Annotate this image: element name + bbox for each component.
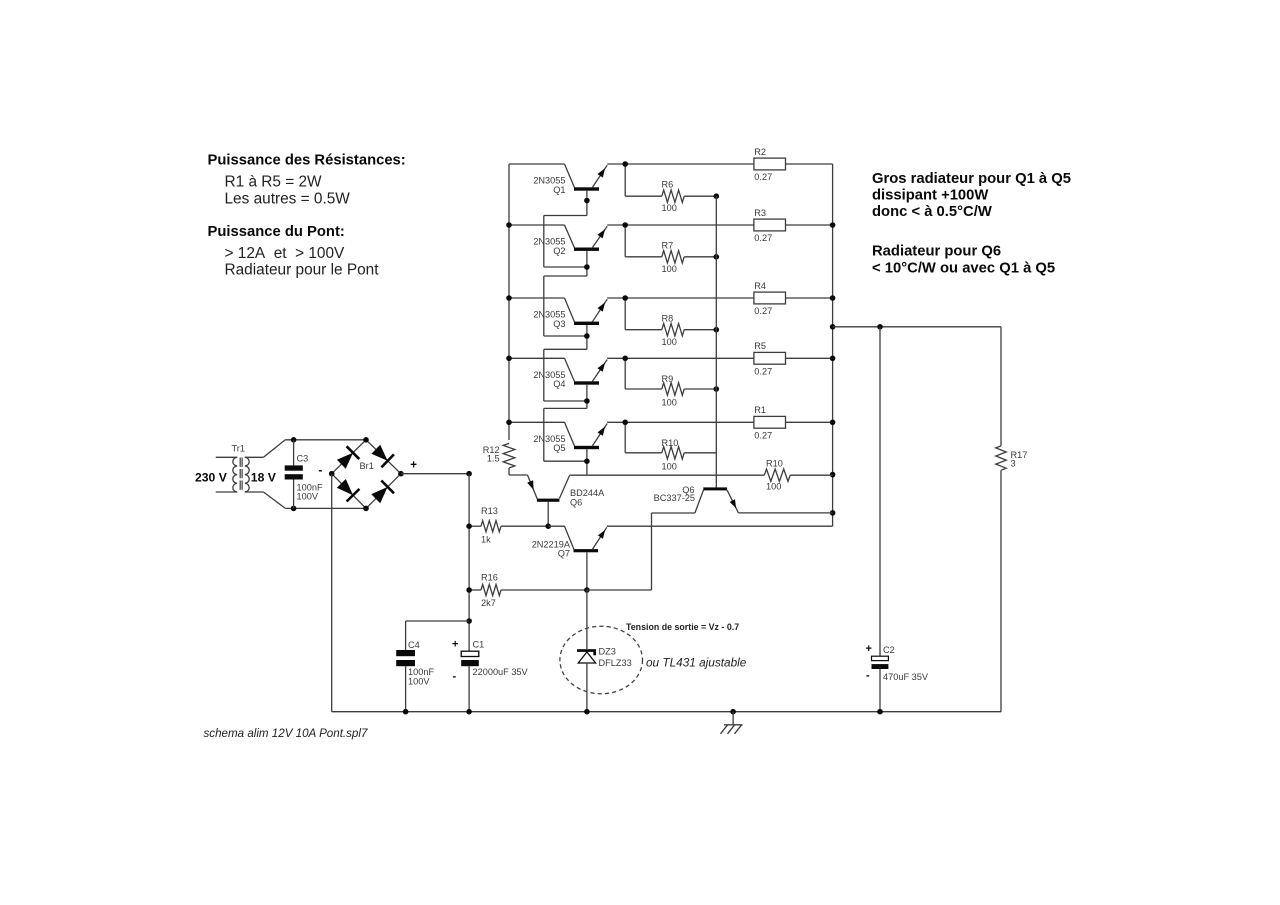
resistor R10 100 [622,420,716,472]
wire R17 to ground rail [1000,470,1002,712]
svg-text:C3: C3 [297,454,309,464]
svg-text:R1 à R5 = 2W: R1 à R5 = 2W [225,174,323,191]
svg-text:-: - [318,463,322,477]
resistor R9 100 [622,356,719,408]
svg-text:Q4: Q4 [553,379,565,389]
svg-text:R10: R10 [662,438,679,448]
svg-text:1.5: 1.5 [487,454,500,464]
svg-text:100: 100 [766,482,781,492]
svg-text:Q1: Q1 [553,185,565,195]
capacitor C3 [285,440,323,509]
svg-text:-: - [453,671,457,683]
wire left base bus [506,164,512,440]
svg-text:Q2: Q2 [553,246,565,256]
wire bridge minus down to ground rail [332,474,406,712]
svg-text:2k7: 2k7 [481,598,496,608]
transistor Q7 2N2219A [532,526,607,590]
wire 100-ohm bus to Q6 collector [715,196,717,487]
svg-text:100nF: 100nF [408,667,434,677]
svg-text:R2: R2 [754,147,766,157]
svg-text:R9: R9 [662,374,674,384]
svg-text:Tension de sortie = Vz - 0.7: Tension de sortie = Vz - 0.7 [626,622,739,632]
svg-text:Gros radiateur pour Q1 à Q5: Gros radiateur pour Q1 à Q5 [872,171,1071,187]
svg-text:Radiateur pour le Pont: Radiateur pour le Pont [225,262,380,279]
ground symbol [721,709,743,734]
resistor R7 100 [622,222,719,274]
resistor R4 0.27 [754,281,833,316]
note: gros radiateur pour Q1 a Q5 [872,171,1071,220]
svg-text:R13: R13 [481,506,498,516]
wire collector Q5 [544,408,590,475]
node bridge left (minus) [318,463,334,477]
wire collector Q3 [544,276,590,349]
resistor R17 3 [996,446,1028,470]
wire ground rail [403,709,1001,715]
svg-text:+: + [410,460,417,472]
svg-text:100V: 100V [297,492,319,502]
svg-text:100: 100 [662,264,677,274]
svg-text:R8: R8 [662,314,674,324]
svg-text:100: 100 [662,337,677,347]
svg-text:R10: R10 [766,459,783,469]
svg-text:dissipant +100W: dissipant +100W [872,188,988,204]
svg-text:0.27: 0.27 [754,172,772,182]
svg-text:R1: R1 [754,405,766,415]
capacitor C2 470uF [866,327,929,712]
wire output to R17 [833,324,1001,446]
svg-text:donc < à 0.5°C/W: donc < à 0.5°C/W [872,204,992,220]
wire Q7 emitter to right bus [607,525,833,527]
svg-text:0.27: 0.27 [754,306,772,316]
svg-text:R6: R6 [662,180,674,190]
transistor Q6 BD244A [509,468,605,526]
svg-text:C2: C2 [883,645,895,655]
svg-text:R7: R7 [662,241,674,251]
wire right emitter bus [830,164,836,526]
svg-text:Puissance du Pont:: Puissance du Pont: [208,224,345,240]
resistor R8 100 [622,295,719,347]
svg-text:-: - [866,670,870,682]
diode Br1 lower-left [337,479,360,502]
svg-text:Br1: Br1 [360,461,374,471]
resistor R6 100 [622,161,719,213]
wire bridge plus to C1 node [401,473,469,475]
svg-text:230 V: 230 V [195,471,228,485]
svg-text:Q5: Q5 [553,443,565,453]
svg-text:R16: R16 [481,573,498,583]
svg-text:BC337-25: BC337-25 [654,493,695,503]
resistor R13 1k [469,506,564,545]
diode Br1 lower-right [371,481,394,504]
resistor R1 0.27 [754,405,833,440]
transformer Tr1 [195,444,277,492]
note: filename [204,727,368,740]
svg-text:Q3: Q3 [553,319,565,329]
wire drive rail [570,474,833,476]
resistor R3 0.27 [754,208,833,243]
note: radiateur pour Q6 [872,244,1055,277]
note: puissance des resistances [208,153,406,208]
node bridge right (plus) [398,460,417,477]
svg-text:100: 100 [662,398,677,408]
resistor R5 0.27 [754,341,833,376]
svg-text:Radiateur pour Q6: Radiateur pour Q6 [872,244,1001,260]
svg-text:0.27: 0.27 [754,233,772,243]
resistor R10 100 (drive) [764,459,790,492]
diode Br1 upper-left [337,446,359,468]
svg-text:C1: C1 [473,640,485,650]
svg-text:18 V: 18 V [251,471,277,485]
transistor Q3 2N3055 [509,298,754,329]
wire secondary bottom to bridge bottom [264,492,367,508]
svg-text:DZ3: DZ3 [599,646,616,656]
svg-text:< 10°C/W ou avec Q1 à Q5: < 10°C/W ou avec Q1 à Q5 [872,261,1055,277]
svg-text:Puissance des Résistances:: Puissance des Résistances: [208,153,406,169]
node bridge top [363,437,369,443]
transistor Q6 BC337-25 [652,485,739,590]
transistor Q1 2N3055 [509,164,754,195]
svg-text:470uF 35V: 470uF 35V [883,672,929,682]
wire plus node down to C1 [466,474,472,652]
svg-text:+: + [866,643,872,655]
svg-text:Tr1: Tr1 [232,444,245,454]
svg-text:0.27: 0.27 [754,431,772,441]
transistor Q4 2N3055 [509,358,754,389]
junction plus rail [466,471,472,477]
svg-text:C4: C4 [408,640,420,650]
svg-text:+: + [452,639,458,651]
svg-text:0.27: 0.27 [754,367,772,377]
svg-text:R3: R3 [754,208,766,218]
note: tension de sortie [626,622,739,632]
svg-text:3: 3 [1011,459,1016,469]
svg-text:100: 100 [662,203,677,213]
svg-text:R4: R4 [754,281,766,291]
capacitor C4 100nF [396,621,469,712]
transistor Q5 2N3055 [509,422,754,453]
svg-text:22000uF 35V: 22000uF 35V [473,667,529,677]
svg-text:1k: 1k [481,534,491,544]
svg-text:> 12A et > 100V: > 12A et > 100V [225,245,346,262]
capacitor C1 22000uF [452,639,529,712]
junction C3 bottom [291,506,297,512]
svg-text:Q7: Q7 [558,549,570,559]
svg-text:schema alim 12V 10A Pont.spl7: schema alim 12V 10A Pont.spl7 [204,727,368,740]
junction C3 top [291,437,297,443]
svg-text:ou TL431 ajustable: ou TL431 ajustable [646,656,747,670]
wire collector Q1 [544,191,590,216]
svg-text:R5: R5 [754,341,766,351]
wire collector Q4 [544,349,590,408]
diode Br1 upper-right [371,445,394,468]
zener DZ3 DFLZ33 [560,590,643,712]
svg-text:Q6: Q6 [570,498,582,508]
bridge Br1 frame [332,440,401,509]
transistor Q2 2N3055 [509,225,754,256]
svg-text:100V: 100V [408,677,430,687]
node bridge bottom [363,506,369,512]
note: puissance du pont [208,224,380,279]
wire secondary top to bridge top [264,440,367,458]
resistor R12 1.5 [483,443,515,468]
svg-text:100: 100 [662,462,677,472]
wire BC337 emitter to right bus [738,512,832,514]
svg-text:DFLZ33: DFLZ33 [599,658,632,668]
resistor R16 2k7 [469,573,651,608]
svg-text:Les autres = 0.5W: Les autres = 0.5W [225,191,351,208]
wire collector Q2 [544,216,590,277]
resistor R2 0.27 [754,147,833,182]
note: ou TL431 [646,656,747,670]
